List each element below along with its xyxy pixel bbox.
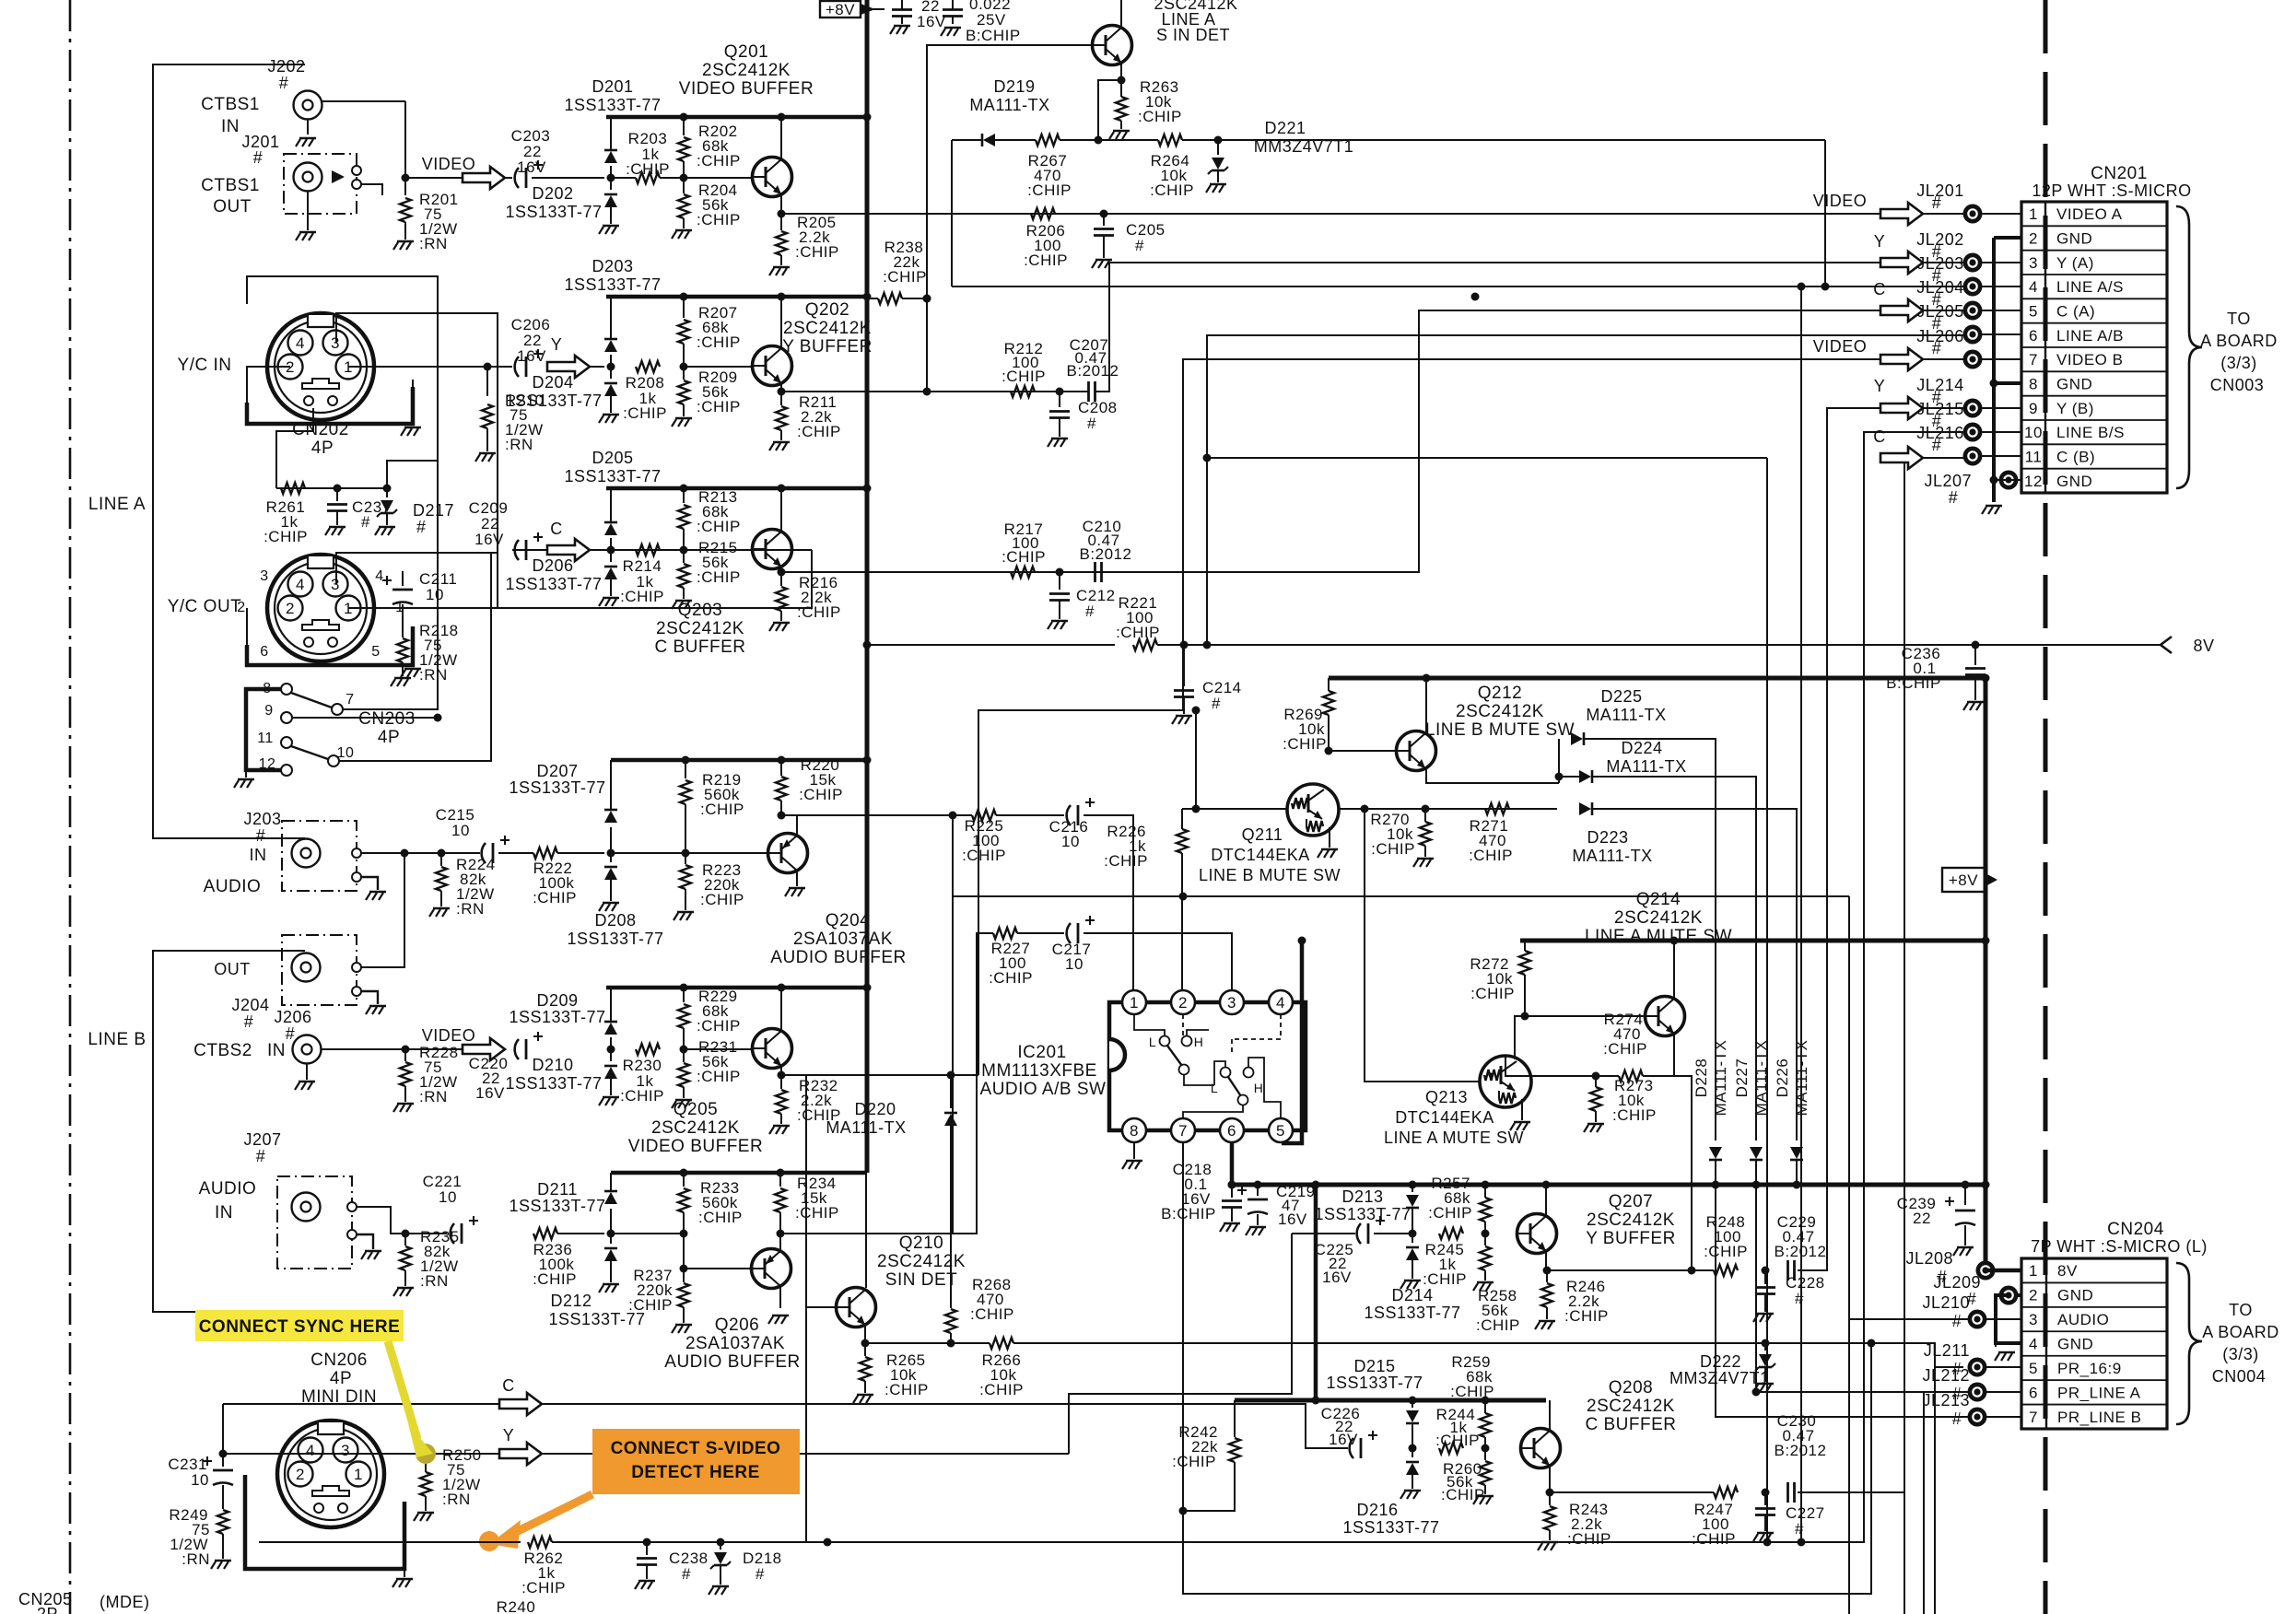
label J201 — [241, 133, 279, 167]
resistor R217x — [1002, 520, 1046, 578]
signal arrow VIDEO row7 — [1880, 348, 1923, 370]
resistor R211 — [769, 392, 841, 450]
IC pin5 thick wire — [1282, 941, 1302, 1143]
node C208 — [1056, 388, 1064, 396]
bus node row1 — [863, 113, 872, 122]
svg-text:22: 22 — [1913, 1210, 1931, 1227]
IC201 pin 7 — [1171, 1118, 1195, 1142]
wire Q201 collector — [780, 117, 782, 159]
wire VIDEO B out — [781, 1074, 978, 1076]
node rail D213 — [1409, 1181, 1417, 1189]
node v1006 Y — [923, 388, 931, 396]
signal arrow C row3 — [547, 539, 590, 561]
svg-text:10: 10 — [2024, 424, 2043, 441]
node R259/R260 — [1482, 1444, 1490, 1453]
resistor R271 — [1469, 803, 1513, 864]
label D212 — [548, 1292, 645, 1328]
transistor Q213 DTC — [1480, 1056, 1531, 1107]
svg-text::CHIP: :CHIP — [626, 160, 670, 178]
node R202/R204 — [680, 174, 688, 182]
node pin9 join — [434, 714, 442, 722]
svg-text:#: # — [253, 148, 264, 167]
svg-text:IN: IN — [250, 846, 267, 864]
wire Y A out — [781, 391, 1088, 392]
svg-text:LINE A/B: LINE A/B — [2056, 327, 2124, 345]
label D204 — [505, 373, 602, 410]
wire Q204 collector — [796, 871, 798, 886]
label Q214 — [1585, 890, 1732, 946]
svg-text:D207: D207 — [536, 762, 578, 780]
wire C216 to IC pin1 — [1084, 815, 1133, 990]
wire pad row6 — [1981, 333, 2021, 335]
IC201 switch 1 — [1134, 1014, 1214, 1085]
pad JL row10 — [1963, 423, 1983, 442]
wire Q210 collector — [865, 1173, 867, 1288]
wire Y to C225 riser — [1069, 1234, 1292, 1454]
svg-text:C212: C212 — [1076, 587, 1116, 604]
svg-text::CHIP: :CHIP — [697, 518, 741, 535]
svg-text:8: 8 — [1130, 1122, 1139, 1140]
node D203 — [607, 363, 615, 371]
svg-text:C228: C228 — [1786, 1274, 1825, 1292]
node R272 base — [1521, 1012, 1529, 1021]
wire J206 to arrow — [322, 1048, 463, 1050]
svg-text:VIDEO BUFFER: VIDEO BUFFER — [628, 1137, 763, 1156]
node C212 — [1056, 568, 1064, 577]
svg-text::CHIP: :CHIP — [1027, 181, 1072, 199]
CN203 top wire — [336, 553, 498, 608]
svg-text::CHIP: :CHIP — [1116, 624, 1160, 641]
wire D225 vert — [1558, 739, 1560, 783]
Q213 gnd — [1510, 1099, 1530, 1130]
wire Q203 emitter — [780, 567, 782, 572]
svg-text:16V: 16V — [1329, 1431, 1358, 1448]
svg-text:B:2012: B:2012 — [1067, 362, 1119, 380]
wire J203 to C215 — [361, 852, 480, 854]
node C228 — [1762, 1267, 1770, 1275]
wire Q212 collector — [1425, 678, 1427, 733]
svg-text:VIDEO A: VIDEO A — [2056, 205, 2123, 223]
svg-text:DETECT HERE: DETECT HERE — [631, 1463, 760, 1482]
jack J206 CTBS2 — [293, 1035, 322, 1091]
svg-text:Q205: Q205 — [674, 1100, 718, 1119]
rail c buffer thick — [1235, 1398, 1546, 1403]
wire Q206 collector — [779, 1286, 781, 1308]
label JL211 — [1924, 1341, 1970, 1378]
resistor R218 — [391, 622, 459, 686]
CN201 gnd bus — [1982, 238, 2021, 514]
node mute rail 8V — [1982, 937, 1990, 945]
svg-text:1SS133T-77: 1SS133T-77 — [1342, 1518, 1439, 1537]
wire D211 to node — [611, 1233, 684, 1234]
node R273 — [1592, 1072, 1600, 1081]
svg-text::CHIP: :CHIP — [1371, 840, 1415, 858]
label J204 — [214, 960, 269, 1031]
wire audio to JL210 — [953, 895, 1849, 897]
svg-text::RN: :RN — [442, 1491, 471, 1508]
node D226 — [1793, 1181, 1801, 1189]
node Q206 out — [777, 1230, 785, 1238]
diode D208 — [599, 853, 619, 911]
wire v1034 — [952, 815, 954, 1234]
svg-text:LINE B MUTE SW: LINE B MUTE SW — [1199, 866, 1341, 884]
pad JL211 — [1968, 1358, 1987, 1377]
svg-text:CONNECT S-VIDEO: CONNECT S-VIDEO — [611, 1439, 781, 1458]
svg-text:C BUFFER: C BUFFER — [1586, 1415, 1677, 1434]
wire node to Q204 base — [685, 852, 768, 854]
svg-text:GND: GND — [2056, 376, 2092, 393]
diode D206 — [599, 550, 619, 606]
wire Q205 emitter — [780, 1066, 782, 1075]
svg-text::CHIP: :CHIP — [697, 1017, 741, 1035]
CN202 pin1 to Y line — [348, 366, 487, 368]
wire D219 corner down — [951, 140, 953, 287]
node rail R229 — [680, 984, 688, 992]
wire J204 branch down — [404, 853, 405, 930]
label Y arrow CN206 — [503, 1426, 515, 1444]
node R213/R215 — [680, 546, 688, 555]
svg-text:#: # — [279, 74, 289, 92]
transistor Q211 DTC — [1287, 784, 1339, 836]
resistor R221 — [1116, 594, 1160, 650]
wire R238 net — [866, 298, 878, 299]
svg-text::CHIP: :CHIP — [697, 398, 741, 415]
svg-text:L: L — [1211, 1081, 1218, 1095]
svg-text::CHIP: :CHIP — [697, 211, 741, 228]
svg-text:CTBS2: CTBS2 — [193, 1041, 252, 1060]
svg-text:JL207: JL207 — [1924, 472, 1972, 490]
wire Q212 emitter — [1426, 769, 1559, 783]
svg-text:S IN DET: S IN DET — [1156, 26, 1230, 44]
node v1006 R238 — [923, 295, 931, 303]
svg-text:MINI DIN: MINI DIN — [301, 1387, 377, 1407]
diode D222 zener — [1669, 1343, 1775, 1392]
resistor R268 — [945, 1276, 1014, 1343]
svg-text:1SS133T-77: 1SS133T-77 — [564, 467, 661, 485]
node C219 — [1254, 1181, 1262, 1189]
wire +8V to bus — [873, 8, 884, 10]
callout yellow CONNECT SYNC HERE — [195, 1310, 433, 1457]
svg-text:2SC2412K: 2SC2412K — [651, 1118, 740, 1138]
node Q204 out — [778, 812, 786, 820]
label JL209 — [1933, 1273, 1981, 1308]
transistor Q205 — [753, 1029, 792, 1069]
svg-text:D205: D205 — [592, 449, 633, 467]
svg-text::CHIP: :CHIP — [623, 404, 667, 422]
svg-text:5: 5 — [371, 644, 380, 660]
node R238 right — [923, 295, 931, 303]
resistor R215 — [672, 539, 741, 609]
svg-text:11: 11 — [257, 731, 274, 746]
transistor Q208 — [1521, 1429, 1561, 1468]
svg-text::CHIP: :CHIP — [1441, 1486, 1485, 1503]
jack J203 box — [282, 821, 386, 900]
svg-text:B:2012: B:2012 — [1080, 545, 1132, 563]
svg-text:J207: J207 — [243, 1130, 281, 1149]
wire pad row7 — [1981, 358, 2021, 360]
wire D219 to R267 — [995, 139, 1036, 141]
diode D227 — [1750, 1147, 1763, 1185]
label JL206 — [1916, 327, 1964, 357]
CN202 lower net — [276, 487, 387, 489]
node D217 — [383, 485, 392, 493]
svg-text:MA111-TX: MA111-TX — [1586, 706, 1666, 724]
+8V supply box — [820, 1, 875, 18]
wire R203 to node — [660, 177, 684, 179]
label Y row3 — [1874, 232, 1886, 251]
label CN205 MDE — [18, 1590, 150, 1614]
svg-text:6: 6 — [2029, 327, 2038, 345]
svg-text:4P: 4P — [330, 1369, 352, 1388]
jack J204 box — [282, 935, 386, 1014]
svg-text:1SS133T-77: 1SS133T-77 — [509, 778, 605, 797]
resistor R219 — [680, 760, 744, 853]
svg-text:6: 6 — [1227, 1122, 1236, 1140]
pad JL209 — [1999, 1286, 2019, 1305]
capacitor C209 — [469, 499, 543, 560]
svg-text::RN: :RN — [419, 1088, 448, 1105]
label R240 cut — [497, 1598, 536, 1614]
svg-text:C: C — [502, 1376, 515, 1395]
IC201 pin 3 — [1220, 990, 1244, 1014]
wire Q207 collector — [1545, 1185, 1547, 1216]
diode D226 — [1790, 1147, 1803, 1185]
resistor R243 — [1538, 1492, 1611, 1550]
svg-text:C (A): C (A) — [2056, 303, 2095, 321]
label D208 — [567, 911, 663, 948]
wire CN202 net up — [387, 304, 438, 488]
rail row2 thick — [606, 295, 867, 299]
svg-text:#: # — [286, 1024, 296, 1043]
resistor R262 — [521, 1537, 566, 1596]
diode D218 zener — [709, 1542, 782, 1595]
resistor R260 — [1441, 1448, 1494, 1504]
svg-text:#: # — [1932, 436, 1942, 454]
rail line A mute thick — [1520, 939, 1986, 943]
svg-text:9: 9 — [2029, 400, 2038, 417]
resistor R229 — [678, 988, 741, 1049]
node v1918 detect — [1763, 1538, 1772, 1547]
svg-text:JL209: JL209 — [1933, 1273, 1981, 1292]
wire pad row10 — [1981, 431, 2021, 433]
svg-text::CHIP: :CHIP — [1612, 1106, 1657, 1124]
node Q208 out — [1546, 1489, 1554, 1497]
wire pin7 up — [343, 304, 438, 709]
node rail R220 — [778, 756, 786, 765]
svg-text:IN: IN — [267, 1041, 286, 1060]
capacitor C220 — [469, 1032, 543, 1102]
svg-text:A BOARD: A BOARD — [2202, 1323, 2279, 1341]
diode D213 — [1406, 1185, 1419, 1234]
node detect right — [824, 1538, 832, 1547]
label JL210 — [1922, 1293, 1970, 1330]
svg-text:CTBS1: CTBS1 — [201, 95, 260, 114]
svg-text:H: H — [1254, 1081, 1264, 1095]
label C arrow CN206 — [502, 1376, 515, 1395]
pad JL row7 — [1963, 350, 1983, 369]
label VIDEO row1 right — [1813, 192, 1868, 210]
IC201 pin 5 — [1269, 1118, 1293, 1142]
svg-text::CHIP: :CHIP — [1704, 1243, 1748, 1260]
wire C line from CN203 — [348, 550, 812, 608]
svg-text:JL211: JL211 — [1924, 1341, 1970, 1360]
transistor Q207 — [1517, 1214, 1557, 1254]
svg-text:D228: D228 — [1693, 1058, 1710, 1098]
wire Q210 emitter — [864, 1325, 866, 1343]
resistor R207 — [678, 297, 741, 367]
svg-text::CHIP: :CHIP — [700, 891, 744, 908]
svg-text:B:2012: B:2012 — [1775, 1442, 1827, 1459]
CN202 pin3 wire — [336, 313, 498, 553]
label CN206 — [301, 1351, 377, 1407]
resistor R265 — [853, 1343, 929, 1403]
label J203 — [243, 810, 281, 864]
diode D224 — [1579, 770, 1592, 783]
resistor R205 — [769, 214, 839, 275]
wire D224 right — [1592, 777, 1756, 1140]
node rail R213 — [680, 485, 688, 493]
node v1034 audio — [949, 812, 957, 820]
wire Y line to C206 — [487, 366, 512, 368]
wire D224 branch — [1559, 776, 1579, 778]
node R224 — [438, 849, 446, 858]
svg-text:(3/3): (3/3) — [2222, 1345, 2259, 1363]
node R270 — [1422, 805, 1430, 813]
svg-text:LINE B: LINE B — [88, 1030, 146, 1049]
svg-text::CHIP: :CHIP — [1567, 1530, 1611, 1548]
svg-text:#: # — [416, 518, 427, 536]
svg-text:J206: J206 — [274, 1008, 311, 1026]
node link top — [1312, 1181, 1320, 1189]
capacitor C238 — [635, 1542, 709, 1589]
label Q206 — [664, 1316, 800, 1372]
svg-text::CHIP: :CHIP — [1603, 1040, 1647, 1058]
svg-text:D211: D211 — [537, 1180, 578, 1199]
node rail Q207 — [1542, 1181, 1551, 1189]
label Q210 — [877, 1234, 966, 1290]
svg-text:MA111-TX: MA111-TX — [826, 1118, 906, 1137]
node pin5 rail — [1298, 937, 1306, 945]
signal arrow VIDEO row1 right — [1880, 203, 1923, 225]
resistor R202 — [678, 117, 741, 178]
wire R226 to Q211 base — [1182, 808, 1287, 810]
label D227 rotated — [1733, 1040, 1770, 1117]
wire R266 right — [1013, 1343, 1963, 1367]
label Q202 — [782, 300, 873, 357]
page left dash-dot border — [69, 0, 72, 1614]
connector CN203 S-video Y/C OUT — [267, 555, 374, 661]
node C231 — [219, 1450, 228, 1458]
label JL207 — [1924, 472, 1972, 507]
svg-text::CHIP: :CHIP — [1002, 548, 1046, 566]
pad JL213 — [1968, 1408, 1987, 1427]
capacitor C227 — [1753, 1492, 1825, 1541]
transistor Q206 PNP — [752, 1249, 791, 1289]
label CTBS1 OUT — [201, 176, 260, 216]
label JL213 — [1922, 1391, 1970, 1428]
wire Q202 collector — [780, 297, 782, 348]
bus node row2 — [863, 293, 872, 301]
svg-text:LINE A MUTE SW: LINE A MUTE SW — [1384, 1129, 1524, 1147]
switch CN203 pins — [257, 681, 355, 776]
IC201 pin6 thick — [1230, 1142, 1235, 1185]
svg-text:1SS133T-77: 1SS133T-77 — [567, 930, 663, 948]
svg-text:LINE A/S: LINE A/S — [2056, 278, 2124, 296]
IC201 pin 2 — [1171, 990, 1195, 1014]
svg-text::CHIP: :CHIP — [979, 1381, 1024, 1398]
label CTBS2 IN — [193, 1041, 286, 1060]
svg-text:D225: D225 — [1600, 687, 1642, 706]
transistor Q203 — [753, 530, 792, 569]
node CN202 Y — [484, 363, 492, 371]
svg-text:H: H — [1194, 1035, 1204, 1049]
node rail Q214 — [1670, 937, 1679, 945]
svg-text:Y: Y — [551, 335, 563, 354]
diode D210 — [599, 1049, 619, 1105]
svg-text:(3/3): (3/3) — [2220, 354, 2257, 372]
node mute rail2 8V — [1982, 1181, 1990, 1189]
svg-text:CN204: CN204 — [2107, 1220, 2164, 1239]
resistor R259 — [1450, 1353, 1494, 1448]
wire R225 to C216 — [996, 814, 1064, 816]
resistor R261 — [264, 483, 308, 545]
label D214 — [1364, 1286, 1460, 1322]
svg-text:5: 5 — [2029, 303, 2038, 321]
svg-text::CHIP: :CHIP — [884, 1381, 929, 1398]
CN202 frame wire top — [247, 276, 438, 304]
wire C B up — [1798, 458, 1963, 1492]
svg-text:2: 2 — [286, 600, 295, 617]
svg-text:2: 2 — [2029, 230, 2038, 248]
wire pin10 up — [339, 553, 491, 761]
svg-text:1SS133T-77: 1SS133T-77 — [1364, 1304, 1460, 1322]
label D202 — [505, 184, 602, 221]
capacitor C210 — [1080, 518, 1132, 582]
svg-text:1SS133T-77: 1SS133T-77 — [564, 275, 661, 294]
Q204 collector gnd — [785, 888, 805, 896]
svg-text:IN: IN — [215, 1203, 233, 1222]
label to A board CN003 — [2200, 310, 2278, 394]
label D203 — [564, 257, 661, 294]
resistor R247 — [1692, 1487, 1738, 1548]
svg-text:1SS133T-77: 1SS133T-77 — [505, 575, 602, 593]
label JL203 — [1916, 254, 1964, 285]
resistor R204 — [672, 178, 741, 239]
svg-text:D213: D213 — [1341, 1187, 1383, 1206]
label JL205 — [1916, 302, 1964, 333]
svg-text:10: 10 — [1061, 833, 1080, 850]
svg-text:Y: Y — [1874, 377, 1886, 395]
wire Y line CN206 — [223, 1453, 1069, 1455]
svg-text:2: 2 — [2029, 1287, 2038, 1304]
bus node row5 — [863, 984, 872, 992]
wire pad row9 — [1981, 407, 2021, 409]
diode D214 — [1400, 1234, 1421, 1289]
label Q212 — [1425, 684, 1575, 740]
diode D207v — [604, 760, 617, 853]
node D211 — [607, 1230, 615, 1238]
svg-text:1: 1 — [2029, 205, 2038, 223]
diode D225 — [1571, 732, 1584, 745]
resistor R223 — [674, 853, 744, 920]
svg-text:D208: D208 — [594, 911, 636, 930]
wire Q207 emitter — [1545, 1251, 1547, 1270]
resistor R232 — [769, 1075, 841, 1134]
svg-text::CHIP: :CHIP — [962, 847, 1006, 864]
CN202 lower wires — [276, 408, 313, 488]
diode D228 — [1709, 1147, 1722, 1185]
svg-text:#: # — [1135, 237, 1144, 254]
